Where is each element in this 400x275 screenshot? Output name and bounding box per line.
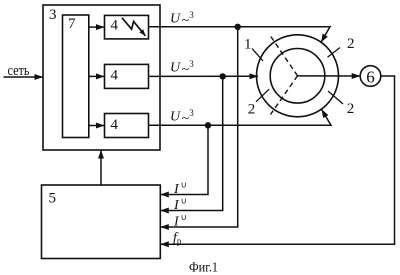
svg-text:6: 6 xyxy=(366,68,375,87)
svg-text:5: 5 xyxy=(49,191,57,207)
svg-text:1: 1 xyxy=(244,37,252,53)
svg-text:7: 7 xyxy=(68,16,76,32)
svg-text:2: 2 xyxy=(347,36,355,52)
svg-text:сеть: сеть xyxy=(8,63,30,79)
svg-text:2: 2 xyxy=(248,102,256,118)
svg-text:Фиг.1: Фиг.1 xyxy=(189,261,218,275)
svg-text:4: 4 xyxy=(111,68,119,84)
svg-text:2: 2 xyxy=(347,101,355,117)
svg-text:4: 4 xyxy=(111,18,119,34)
svg-text:4: 4 xyxy=(111,117,119,133)
svg-text:3: 3 xyxy=(49,7,57,23)
